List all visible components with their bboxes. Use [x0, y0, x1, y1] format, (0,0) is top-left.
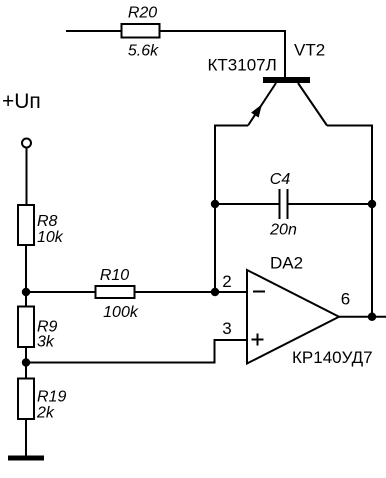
wire R10 left lead	[26, 291, 96, 293]
svg-text:R19: R19	[37, 389, 66, 406]
svg-text:R20: R20	[128, 5, 157, 22]
wire to non-inverting input pin 3	[26, 340, 247, 363]
svg-text:VT2: VT2	[294, 41, 325, 60]
op-amp DA2	[222, 254, 372, 368]
svg-text:5.6k: 5.6k	[128, 43, 159, 60]
svg-text:R10: R10	[100, 267, 129, 284]
wire R20 to base of VT2	[159, 31, 285, 78]
svg-text:C4: C4	[270, 171, 291, 188]
resistor R9	[18, 307, 58, 351]
svg-text:100k: 100k	[103, 304, 139, 321]
wire C4 left lead	[215, 203, 279, 205]
wire collector to right rail	[327, 126, 372, 317]
svg-text:3: 3	[222, 319, 231, 338]
node junction C4 right	[368, 200, 376, 208]
svg-text:10k: 10k	[37, 229, 64, 246]
wire R10 to inverting input	[135, 291, 216, 293]
svg-text:R8: R8	[37, 213, 58, 230]
resistor R19	[18, 379, 66, 422]
plus symbol	[252, 339, 264, 341]
svg-text:6: 6	[341, 290, 350, 309]
minus symbol	[253, 291, 265, 293]
resistor R20	[122, 5, 160, 60]
ground	[8, 456, 44, 461]
transistor VT2	[208, 41, 328, 126]
resistor R8	[18, 205, 64, 246]
node junction R9/R19	[22, 358, 30, 366]
power terminal +Un	[2, 90, 41, 148]
wire C4 right lead	[289, 203, 373, 205]
wire R8 to R9	[25, 245, 27, 307]
svg-text:2: 2	[222, 272, 231, 291]
svg-text:2k: 2k	[36, 405, 55, 422]
wire terminal to R8	[26, 148, 28, 206]
wire R19 to ground	[25, 419, 27, 456]
capacitor C4	[269, 171, 297, 239]
node junction output	[368, 313, 376, 321]
resistor R10	[96, 267, 139, 321]
node junction R8/R9	[22, 288, 30, 296]
svg-text:DA2: DA2	[270, 254, 303, 273]
wire R20 left lead	[66, 30, 121, 32]
node junction inverting input	[211, 288, 219, 296]
svg-text:3k: 3k	[37, 334, 55, 351]
svg-text:КР140УД7: КР140УД7	[292, 348, 373, 367]
wire output	[339, 316, 386, 318]
svg-text:КТ3107Л: КТ3107Л	[208, 56, 277, 75]
wire pin 2 lead	[215, 291, 247, 293]
svg-text:+Uп: +Uп	[2, 90, 41, 113]
wire emitter to left rail	[215, 126, 248, 293]
node junction C4 left	[211, 200, 219, 208]
wire R9 to R19	[25, 347, 27, 379]
svg-text:20n: 20n	[269, 222, 297, 239]
